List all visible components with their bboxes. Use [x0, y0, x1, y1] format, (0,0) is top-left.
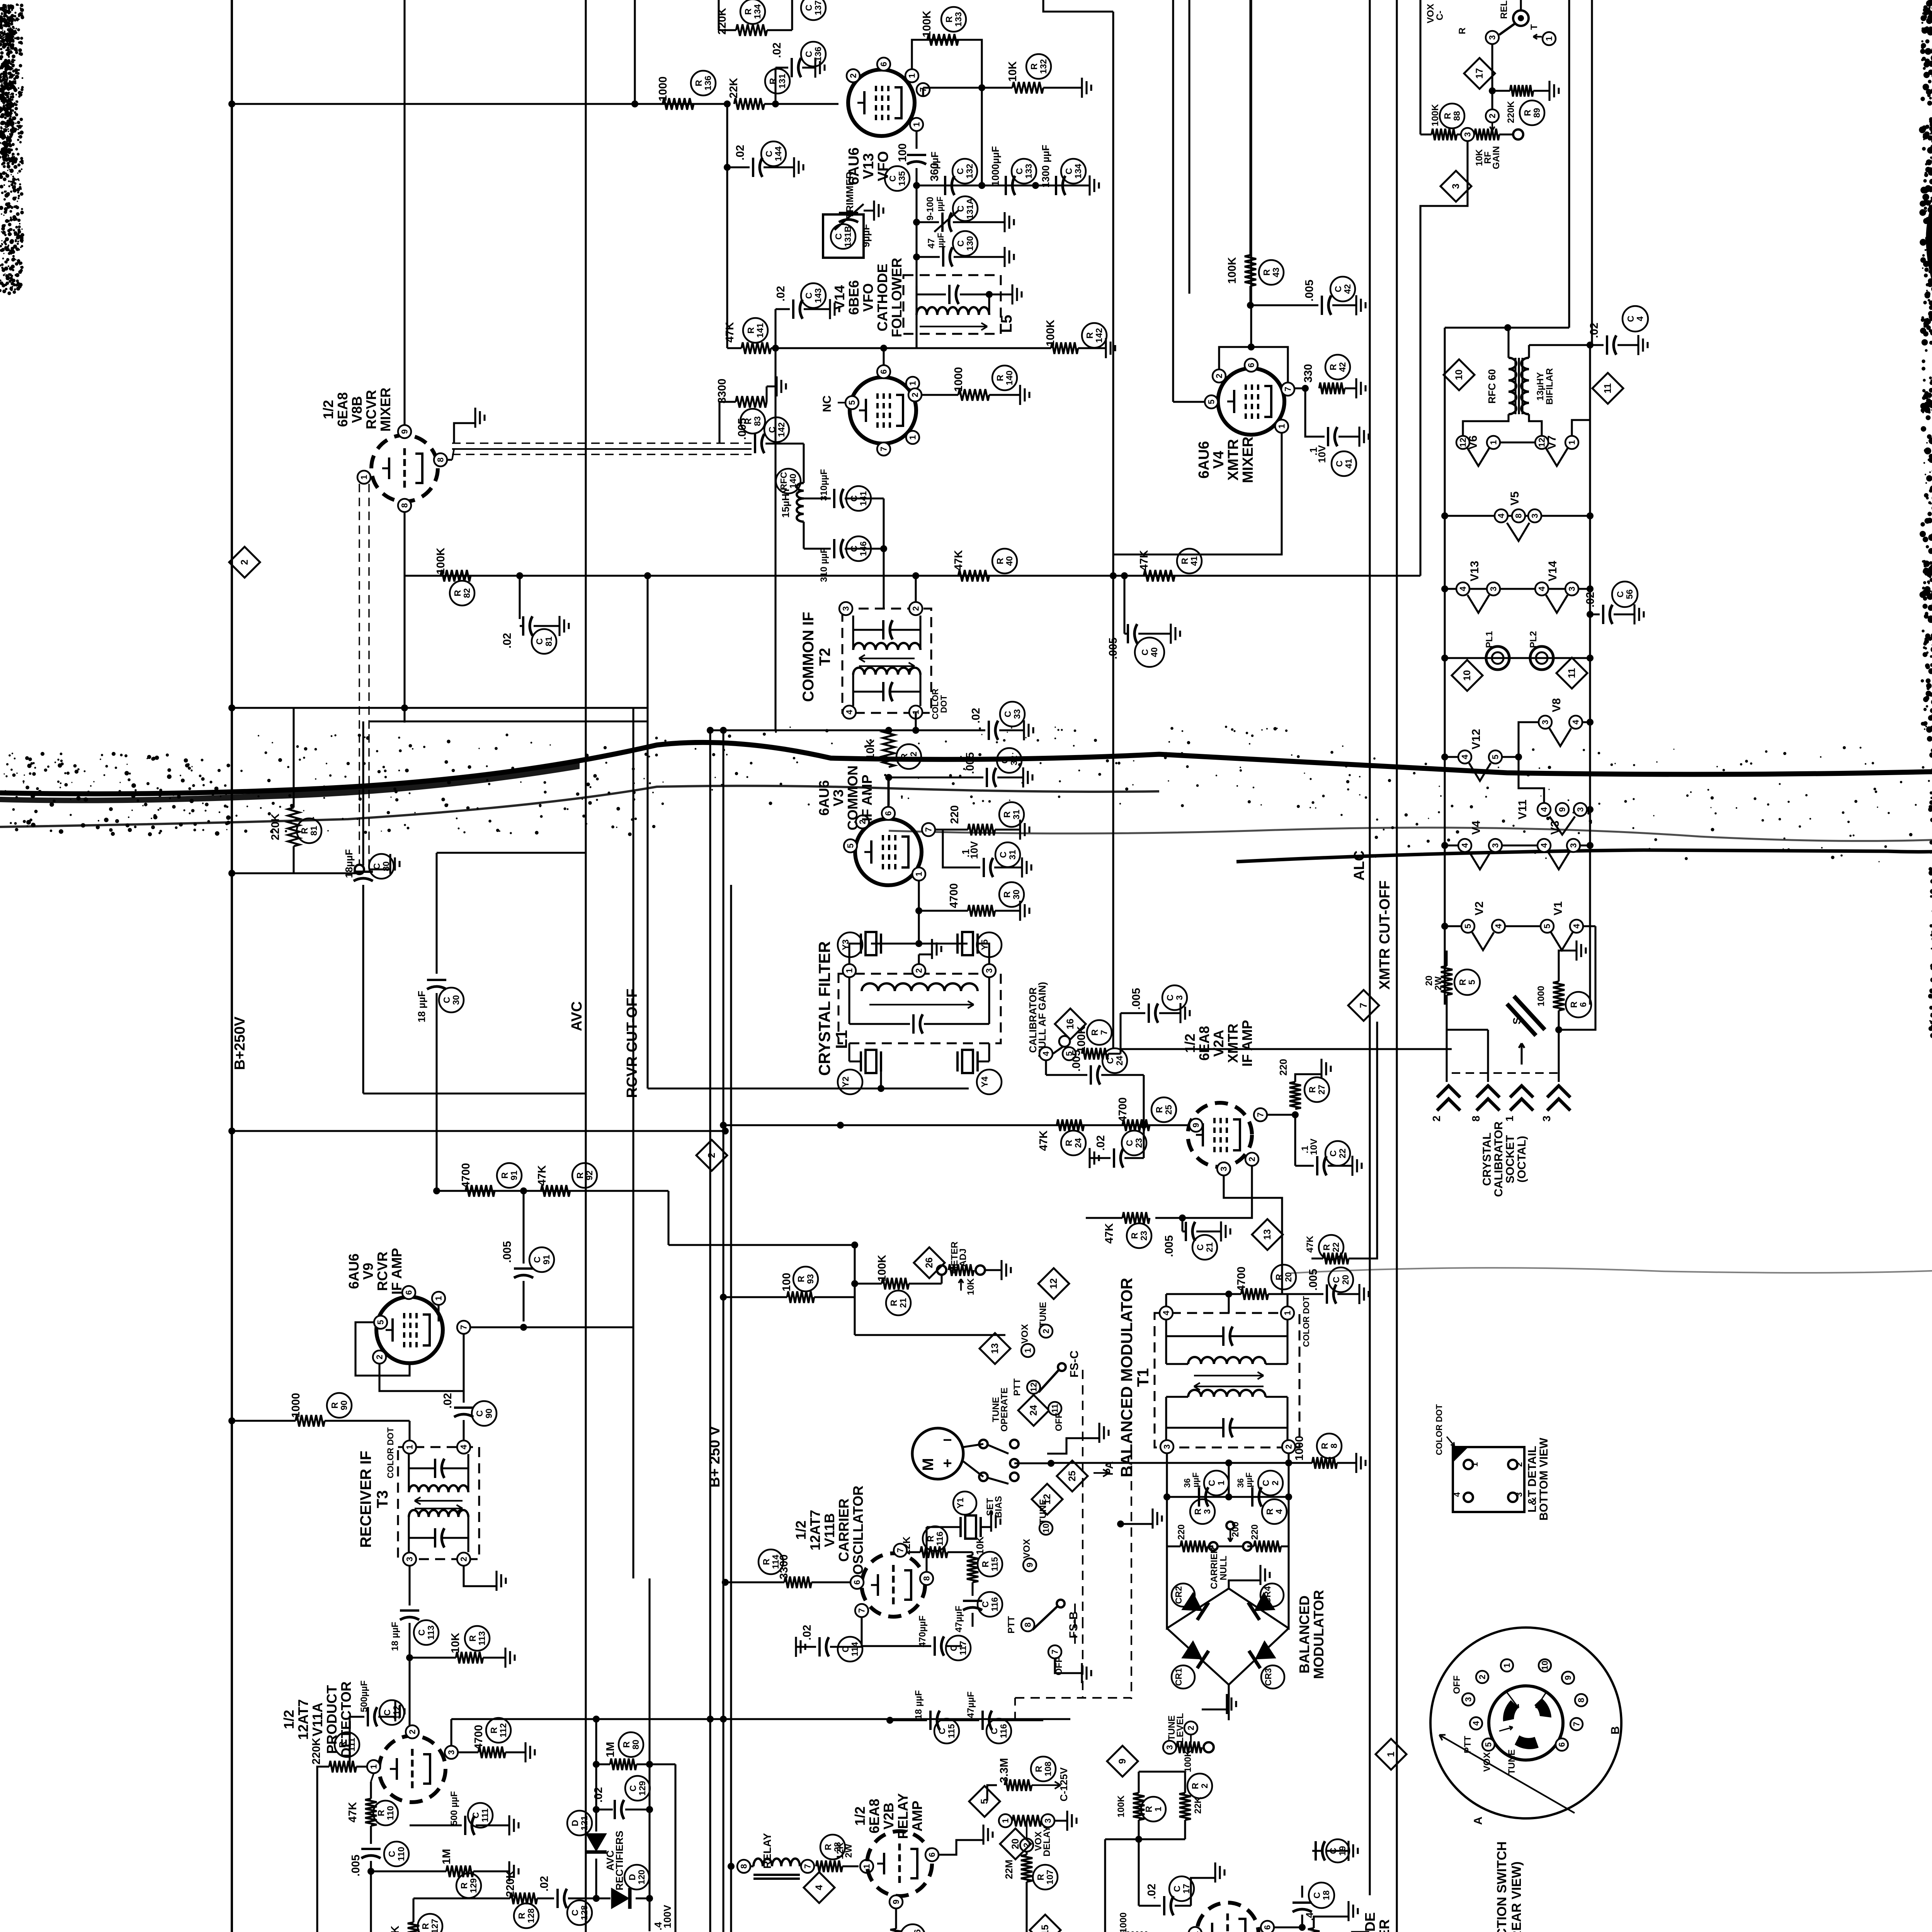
svg-text:100K: 100K — [1226, 257, 1238, 284]
capacitor C112 500uuF — [366, 1766, 367, 1767]
svg-text:C: C — [471, 1812, 481, 1819]
resistor R5 20 2W vertical — [1441, 966, 1452, 995]
resistor R114 3300 — [784, 1577, 811, 1588]
capacitor C80 18uuF — [362, 721, 364, 866]
svg-text:112: 112 — [498, 1723, 508, 1737]
wire: y4452 connects C114 line — [861, 1654, 862, 1720]
capacitor C134 1300uuF — [1055, 176, 1057, 195]
capacitor C115 18uuF — [862, 1719, 927, 1719]
wire: V13 plate box to R133 — [912, 40, 982, 93]
svg-text:10V: 10V — [1309, 1139, 1319, 1155]
wire: R83 left lead — [719, 402, 736, 444]
tube V1B pins — [1189, 1927, 1202, 1932]
svg-text:4: 4 — [459, 1444, 469, 1449]
svg-text:1: 1 — [908, 381, 918, 386]
heater V4 V3 row y2188 — [1445, 844, 1458, 846]
wire: row y3082 screen feed — [437, 1190, 668, 1192]
wire: row y2715 — [1190, 1048, 1452, 1050]
svg-text:8: 8 — [436, 457, 446, 462]
capacitor C144 .02 — [727, 166, 750, 168]
svg-text:.02: .02 — [771, 43, 783, 58]
wire: row y3222 — [668, 1244, 855, 1246]
svg-text:V13: V13 — [861, 153, 877, 179]
FS-C contacts: PTT 12 — [1027, 1381, 1040, 1394]
svg-text:R: R — [1307, 1086, 1317, 1093]
wire: cal socket pins — [1487, 1030, 1489, 1082]
tube V2B pins — [925, 1848, 939, 1861]
svg-text:110: 110 — [385, 1806, 395, 1820]
wire: to FS-C switch — [855, 1334, 1005, 1336]
contact PTT 8 — [1021, 1618, 1034, 1631]
svg-text:32: 32 — [908, 752, 918, 762]
svg-text:1M: 1M — [604, 1742, 617, 1757]
transformer T1 BALANCED MODULATOR — [1155, 1313, 1299, 1447]
diamond 20 — [1000, 1828, 1031, 1859]
wire: V9 pin1 jog — [437, 1305, 439, 1321]
wire: top box lines x4061 x4120 — [1568, 0, 1570, 328]
trimmer box C131B — [823, 214, 864, 258]
svg-text:7: 7 — [459, 1325, 469, 1330]
capacitor C116 47uuF — [963, 1600, 982, 1602]
resistor R128 220K — [510, 1893, 537, 1904]
svg-text:FOLLOWER: FOLLOWER — [889, 258, 905, 337]
wire: box top row y2207 — [437, 852, 586, 854]
svg-text:IF AMP: IF AMP — [859, 775, 875, 821]
svg-text:Y4: Y4 — [980, 1077, 990, 1087]
resistor R82 100K row y1475 — [440, 570, 471, 582]
scan artifact: faint crease x3400-5092 y3280 — [1291, 1268, 1932, 1273]
wire: x2541 y103-480 — [981, 93, 983, 185]
svg-text:5: 5 — [376, 1320, 386, 1325]
wire: B+ pair x1872 — [722, 730, 724, 1932]
svg-text:6: 6 — [404, 1290, 414, 1295]
capacitor C24 .005 — [1045, 1061, 1047, 1075]
svg-text:R: R — [746, 327, 756, 333]
svg-text:1/2: 1/2 — [320, 400, 336, 419]
crystal Y1 — [953, 1492, 976, 1515]
capacitor C146 310uuF — [803, 522, 804, 549]
svg-text:R: R — [517, 1912, 527, 1919]
ground near dashed pair bottom — [369, 868, 390, 870]
svg-text:.005: .005 — [1163, 1235, 1175, 1257]
svg-text:RECEIVER IF: RECEIVER IF — [357, 1451, 374, 1548]
ground C19 — [1347, 1841, 1349, 1861]
wire: long row y2912 to V2A — [723, 1124, 1196, 1126]
transformer T3 RECEIVER IF — [398, 1447, 479, 1559]
svg-text:R: R — [1262, 269, 1272, 276]
capacitor C142 .005 — [754, 434, 756, 453]
T1 top resonator — [1165, 1320, 1167, 1364]
svg-text:7: 7 — [1283, 387, 1293, 391]
svg-text:D: D — [570, 1820, 580, 1827]
inductor L5 dashed box — [903, 275, 1001, 334]
svg-text:R: R — [1180, 558, 1190, 564]
svg-text:R: R — [995, 374, 1005, 381]
scan artifact: fold band echo line — [0, 786, 1159, 827]
resistor R140 1000 — [958, 389, 989, 401]
svg-text:131B: 131B — [843, 226, 853, 247]
svg-text:137: 137 — [813, 0, 823, 15]
svg-text:DOT: DOT — [939, 695, 949, 713]
ground R6 — [1576, 939, 1577, 951]
wire: T1 pin2 down — [1287, 1454, 1289, 1497]
capacitor C143 .02 — [774, 309, 776, 348]
connector pin 8 — [1476, 1086, 1500, 1097]
FS-C dashed boundary — [1082, 1370, 1083, 1619]
resistor R132 10K — [1012, 82, 1043, 94]
capacitor C17 .02 — [1163, 1896, 1165, 1915]
svg-text:.02: .02 — [775, 286, 787, 301]
svg-text:220: 220 — [1277, 1059, 1289, 1075]
diamond 12 upper — [1038, 1268, 1069, 1299]
svg-text:47K: 47K — [1103, 1223, 1116, 1243]
wire: RCVR CUT-OFF bus x1639 — [632, 708, 634, 1578]
wire: R111 left lead down — [317, 1767, 329, 1816]
svg-text:6EA8: 6EA8 — [1196, 1026, 1212, 1061]
ground C81 — [534, 625, 560, 627]
ground C20 — [1337, 1293, 1359, 1295]
svg-text:XMTR: XMTR — [1225, 439, 1242, 481]
capacitor C32 .005 row — [889, 776, 983, 778]
svg-text:30: 30 — [1011, 889, 1021, 900]
diamond 12 lower — [1032, 1484, 1063, 1515]
relay coil — [728, 1863, 735, 1870]
svg-text:RCVR: RCVR — [363, 390, 379, 429]
ground trimmer — [864, 209, 874, 211]
svg-text:1: 1 — [845, 968, 854, 973]
diamond 13 small — [980, 1333, 1010, 1364]
function switch outer circle — [1430, 1628, 1621, 1818]
diamond 4 — [804, 1872, 835, 1903]
contact TUNE 10 — [1039, 1522, 1053, 1535]
inductor RFC140 15uHY — [797, 483, 804, 522]
resistor R28 12K 2W — [816, 1861, 842, 1872]
T3 pins — [403, 1440, 416, 1454]
tube V8B pins — [398, 425, 411, 438]
diode CR4 — [1248, 1592, 1275, 1620]
pot 10K RF GAIN — [1486, 109, 1499, 122]
wire: V4 pin1 down to row 1435 — [1113, 433, 1282, 554]
svg-text:3: 3 — [841, 606, 851, 611]
svg-text:5: 5 — [1207, 400, 1216, 404]
svg-text:C: C — [382, 1709, 392, 1716]
wire: x1748 down — [674, 1764, 676, 1932]
svg-text:1000: 1000 — [657, 77, 669, 102]
tube V14 pins — [877, 365, 890, 378]
svg-text:330: 330 — [1302, 364, 1315, 383]
svg-text:COMMON IF: COMMON IF — [800, 612, 817, 702]
ground L1 pin2 — [918, 954, 920, 964]
L1 arrow — [869, 1004, 974, 1005]
capacitor C19 — [1312, 1850, 1321, 1852]
resistor R42 330 — [1295, 387, 1305, 389]
resistor R41 47K — [1144, 570, 1175, 582]
node: junction y269 x1643 — [631, 100, 638, 107]
wire: long row y1890 — [776, 729, 985, 731]
tube V2B 1/2 6EA8 RELAY AMP — [860, 1860, 873, 1873]
ground meter pot — [985, 1269, 1002, 1271]
L5 capacitor — [917, 293, 946, 295]
svg-text:6EA8: 6EA8 — [335, 392, 350, 427]
wire: T2 pin1 to row y1890 — [915, 712, 917, 730]
capacitor C137 top — [801, 0, 826, 20]
svg-text:C: C — [1124, 1140, 1134, 1146]
svg-text:40: 40 — [1149, 647, 1159, 657]
svg-text:IF AMP: IF AMP — [1239, 1020, 1255, 1067]
svg-text:111: 111 — [347, 1738, 357, 1752]
svg-text:.005: .005 — [736, 418, 748, 440]
resistor R27 220 — [1267, 1114, 1295, 1116]
svg-text:13: 13 — [1262, 1229, 1273, 1240]
svg-text:RECTIFIERS: RECTIFIERS — [614, 1831, 625, 1891]
svg-text:47K: 47K — [389, 1925, 401, 1932]
resistor R24 47K — [1057, 1119, 1084, 1131]
svg-text:32: 32 — [1009, 755, 1019, 765]
svg-text:C: C — [1000, 757, 1010, 764]
pointer second line — [1575, 1793, 1607, 1813]
svg-text:129: 129 — [468, 1878, 478, 1893]
pilot lamps row PL1 PL2 — [1445, 657, 1590, 659]
heater V2 V1 row y2397 — [1445, 925, 1461, 927]
svg-text:C: C — [570, 1910, 580, 1916]
svg-text:C: C — [764, 151, 774, 157]
svg-text:C: C — [955, 168, 965, 175]
svg-text:C: C — [1333, 286, 1343, 293]
ground C111 — [476, 1824, 509, 1826]
meter M — [912, 1428, 963, 1479]
wire: V9 pin7 row to RCVR cutoff bus — [471, 1326, 633, 1328]
node: junction x2007 y269 — [772, 100, 779, 107]
svg-text:1: 1 — [912, 122, 922, 127]
svg-text:RFC: RFC — [779, 472, 789, 490]
wire: row y790 — [1250, 304, 1318, 306]
resistor R90 1000 row y3677 — [232, 1420, 296, 1422]
svg-text:1000: 1000 — [952, 367, 965, 392]
tube V13 pins — [847, 69, 860, 82]
svg-text:220K: 220K — [504, 1870, 517, 1897]
wire: V11B grid to R114 — [811, 1581, 850, 1583]
ground L5 — [989, 293, 1012, 295]
svg-text:MIXER: MIXER — [1240, 437, 1256, 483]
svg-text:XMTR: XMTR — [1225, 1024, 1241, 1063]
svg-text:10K: 10K — [864, 739, 877, 760]
wire: XMTR CUT-OFF bus x3615 — [1396, 0, 1398, 1932]
wire: bridge bottom down — [1228, 1685, 1230, 1720]
svg-text:2: 2 — [911, 606, 921, 611]
wire: x2007 from y901 down to y1890 — [774, 348, 776, 730]
svg-text:8: 8 — [400, 503, 410, 508]
svg-text:2: 2 — [459, 1557, 469, 1561]
svg-text:V3: V3 — [830, 789, 846, 806]
svg-text:C: C — [1140, 649, 1150, 656]
svg-text:22K: 22K — [728, 78, 740, 98]
meter adj pot — [937, 1265, 946, 1275]
contact OFF 7 — [1048, 1645, 1061, 1658]
svg-text:4: 4 — [845, 709, 854, 714]
inductor RFC60 bifilar — [1509, 358, 1516, 414]
node: junction x1345 y1475 — [516, 572, 523, 579]
svg-text:47K: 47K — [1138, 550, 1150, 570]
svg-text:20: 20 — [1340, 1275, 1350, 1285]
svg-text:41: 41 — [1344, 459, 1354, 469]
ground C42 — [1332, 304, 1356, 306]
svg-text:9: 9 — [400, 429, 410, 434]
heater V13 V14 row — [1445, 588, 1590, 590]
svg-text:9µµF: 9µµF — [860, 224, 872, 247]
wire: C112 lead to grid — [350, 1717, 364, 1767]
resistor R31 220 row — [935, 828, 943, 830]
calibrator switch contacts — [1039, 1047, 1053, 1060]
svg-text:500µµF: 500µµF — [359, 1680, 369, 1712]
svg-text:C: C — [417, 1629, 427, 1636]
wire: RF gain branch — [1419, 0, 1421, 134]
L1 coil — [862, 983, 978, 991]
svg-text:2: 2 — [1247, 1157, 1257, 1162]
wire: V14 pin2 to R140 — [922, 394, 958, 396]
capacitor C20 .005 — [1326, 1284, 1328, 1304]
svg-text:80: 80 — [381, 861, 391, 871]
L1 dashed box — [838, 974, 1001, 1043]
svg-text:V14: V14 — [832, 285, 847, 310]
L1 pins — [843, 964, 856, 977]
svg-text:18 µµF: 18 µµF — [416, 991, 427, 1022]
ground vox delay pot — [1055, 1820, 1067, 1821]
svg-text:90: 90 — [484, 1408, 494, 1418]
resistor R92 47K — [541, 1185, 570, 1197]
diamond 17 — [1464, 58, 1495, 89]
svg-text:.005: .005 — [501, 1241, 514, 1263]
capacitor C33 .02 — [988, 721, 990, 740]
resistor R20 4700 — [1225, 1291, 1232, 1298]
ground C136 — [802, 66, 815, 68]
svg-text:C: C — [387, 1851, 397, 1857]
ground T3 pin2 — [464, 1566, 497, 1586]
diamond 25 — [1057, 1461, 1088, 1492]
wire C111 row — [410, 1824, 462, 1826]
svg-text:COLOR DOT: COLOR DOT — [386, 1427, 395, 1478]
capacitor C42 .005 — [1321, 296, 1323, 315]
function switch wafer slots — [1503, 1700, 1519, 1721]
svg-text:Y5: Y5 — [980, 939, 990, 950]
svg-text:42: 42 — [1337, 362, 1347, 372]
svg-text:V2A: V2A — [1211, 1030, 1226, 1057]
svg-text:140: 140 — [1004, 371, 1014, 385]
wire: cap row y480 — [917, 184, 1074, 186]
ground C22 — [1328, 1165, 1352, 1167]
wire: V11A plate up to long row y4449 — [450, 1719, 452, 1745]
svg-text:R: R — [1002, 891, 1012, 898]
resistor R22 47K — [1323, 1253, 1349, 1264]
svg-text:100K: 100K — [435, 548, 447, 574]
capacitor C136 .02 — [776, 66, 788, 68]
svg-text:4700: 4700 — [948, 883, 960, 908]
svg-text:R: R — [995, 558, 1005, 564]
ground OFF7 — [1055, 1659, 1082, 1673]
resistor R15 vertical — [1308, 1928, 1320, 1932]
resistor R129 1M row — [367, 1868, 374, 1875]
ground R27 — [1295, 1074, 1321, 1082]
svg-text:C: C — [956, 206, 966, 212]
wire: meter row to T1 — [1014, 1462, 1051, 1464]
svg-text:XMTR CUT-OFF: XMTR CUT-OFF — [1377, 881, 1393, 990]
svg-text:111: 111 — [480, 1808, 490, 1822]
tube V9 pins — [402, 1286, 415, 1299]
svg-text:4700: 4700 — [460, 1163, 472, 1188]
svg-text:R: R — [1274, 1274, 1284, 1280]
resistor R3 220 — [1180, 1541, 1207, 1552]
wire: long row y1475 RF gain line — [405, 575, 1420, 577]
switch blade FS-B — [1032, 1604, 1060, 1630]
heater V12 row — [1458, 750, 1471, 764]
svg-text:C: C — [1331, 1277, 1341, 1283]
ground R129 — [473, 1870, 509, 1872]
resistor R7 100K — [1082, 1048, 1108, 1060]
svg-text:C: C — [442, 997, 452, 1003]
svg-text:.02: .02 — [538, 1876, 551, 1891]
capacitor C90 .02 — [463, 1391, 464, 1403]
ground Y1 — [990, 1512, 992, 1532]
capacitor C111 500uuF — [371, 1825, 462, 1826]
resistor R6 1000 vertical — [1553, 981, 1565, 1010]
capacitor C113 18uuF — [408, 1566, 410, 1605]
svg-text:30: 30 — [451, 995, 461, 1005]
svg-text:C: C — [888, 175, 898, 182]
svg-text:10K: 10K — [1007, 61, 1019, 82]
heater V6 V7 row — [1463, 414, 1509, 435]
ground C32 — [997, 776, 1023, 778]
svg-text:C: C — [998, 852, 1008, 858]
svg-text:R: R — [1090, 1029, 1100, 1036]
resistor R23 47K — [1122, 1212, 1150, 1224]
wire: horizontal y269 main top row — [232, 103, 727, 105]
ground C23 — [1088, 1148, 1090, 1168]
svg-text:127: 127 — [430, 1919, 440, 1932]
wire: carrier osc plate to Y1 — [935, 1527, 935, 1552]
capacitor C31 .1 10V — [943, 830, 980, 867]
resistor R32 10K vertical — [883, 730, 895, 767]
svg-text:7: 7 — [924, 827, 934, 832]
svg-text:12AT7: 12AT7 — [295, 1699, 311, 1740]
svg-text:47K: 47K — [952, 550, 965, 570]
wire: x2372 continues to y901 row — [915, 334, 917, 348]
svg-text:RCVR CUT-OFF: RCVR CUT-OFF — [624, 989, 640, 1098]
svg-text:16: 16 — [1065, 1019, 1076, 1029]
svg-text:1: 1 — [359, 475, 369, 480]
svg-text:132: 132 — [964, 164, 975, 179]
resistor R106 1M vertical — [890, 1929, 902, 1932]
L&T detail box — [1453, 1447, 1524, 1512]
scan artifact: left mid smudges — [3, 752, 230, 836]
wire: y4843 down to V12B grid — [370, 1871, 372, 1932]
function switch pins 1-10 — [1501, 1659, 1513, 1672]
svg-text:5: 5 — [847, 400, 857, 405]
wire: AVC bus x1516 — [585, 0, 587, 1932]
wire: vertical x2007 y269-480 — [774, 68, 776, 104]
svg-text:7: 7 — [879, 447, 889, 451]
capacitor C23 .02 — [1143, 1125, 1145, 1158]
svg-text:R: R — [694, 80, 704, 86]
svg-text:310 µµF: 310 µµF — [819, 548, 829, 582]
wire: crystals to L1 pins — [849, 944, 861, 968]
ground V8B shield — [454, 423, 475, 443]
svg-text:1/2: 1/2 — [1182, 1034, 1198, 1053]
capacitor C41 .1 10V — [1305, 388, 1325, 437]
ground R112 — [505, 1751, 526, 1753]
svg-text:27: 27 — [1316, 1085, 1327, 1095]
diamond 10 — [1444, 359, 1475, 390]
capacitor C117 470uuF — [861, 1617, 862, 1646]
svg-text:100K: 100K — [1044, 320, 1057, 346]
